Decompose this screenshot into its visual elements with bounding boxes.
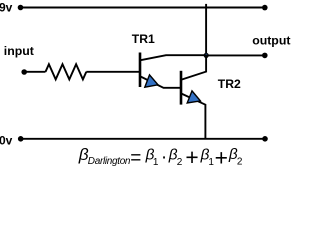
svg-text:+: +	[215, 144, 228, 170]
svg-text:TR2: TR2	[218, 77, 241, 91]
transistor TR2 emitter arrow	[187, 91, 200, 103]
wire vertical drop from 9v rail to collector node	[205, 4, 207, 56]
node output terminal	[262, 53, 268, 59]
svg-text:input: input	[4, 44, 34, 58]
transistor TR2 base bar	[180, 71, 183, 105]
node 9v rail right terminal	[262, 5, 268, 11]
svg-text:1: 1	[153, 157, 159, 168]
svg-text:+: +	[185, 144, 198, 170]
svg-text:TR1: TR1	[132, 32, 155, 46]
svg-text:2: 2	[237, 157, 243, 168]
node 0v rail left terminal	[18, 136, 24, 142]
node 0v rail right terminal	[262, 136, 268, 142]
svg-text:9v: 9v	[0, 0, 13, 14]
wire bottom 0v rail	[21, 138, 265, 140]
transistor TR2 emitter path	[182, 94, 206, 139]
wire top 9v rail	[21, 7, 265, 9]
wire output	[206, 54, 265, 56]
wire resistor to TR1 base	[86, 71, 140, 73]
svg-text:=: =	[130, 148, 141, 169]
wire input lead	[24, 71, 45, 73]
transistor TR1 base bar	[139, 53, 142, 88]
transistor TR2 collector path	[182, 55, 207, 79]
node input terminal	[21, 69, 27, 75]
transistor TR1 emitter path	[141, 77, 181, 88]
node 9v rail left terminal	[18, 5, 24, 11]
formula beta Darlington = b1*b2 + b1 + b2	[78, 144, 243, 170]
transistor TR1 collector path	[141, 55, 207, 60]
svg-text:0v: 0v	[0, 134, 13, 148]
svg-text:2: 2	[177, 157, 183, 168]
transistor TR1 emitter arrow	[145, 75, 158, 87]
svg-text:output: output	[252, 34, 290, 48]
resistor R1 zigzag	[46, 64, 87, 79]
node collector junction A	[204, 53, 209, 58]
svg-text:1: 1	[208, 157, 214, 168]
svg-text:·: ·	[161, 147, 167, 168]
svg-text:Darlington: Darlington	[88, 156, 131, 167]
